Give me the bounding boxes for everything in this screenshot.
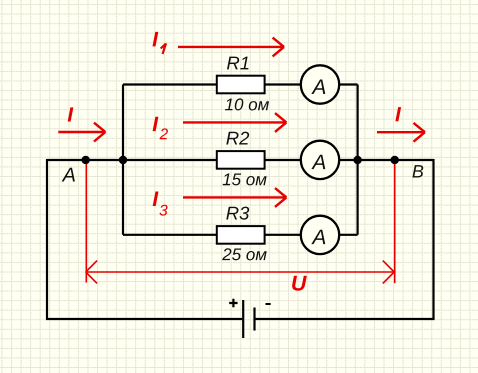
wire: bottom wire to battery plus: [46, 318, 242, 320]
wire: R1 to ammeter A1: [265, 83, 301, 85]
wire: right outer vertical: [432, 159, 434, 320]
current label I left: [68, 107, 74, 121]
current label I3: [153, 192, 159, 206]
junction dot right branch: [353, 156, 361, 164]
voltage extension line right: [394, 164, 396, 283]
label R3: [226, 207, 249, 220]
value label 25 om: [222, 248, 267, 260]
junction dot node B: [391, 156, 399, 164]
subscript 3: [159, 205, 167, 216]
current arrow I right: [377, 123, 425, 142]
label R1: [227, 57, 249, 70]
node label B: [412, 165, 423, 177]
wire: R2 to ammeter A2: [265, 159, 301, 161]
wire: ammeter A2 to node B: [339, 159, 433, 161]
wire: R3 to ammeter A3: [265, 234, 301, 236]
dimension arrowhead right: [383, 261, 394, 284]
wire: branch 1 to R1: [123, 83, 217, 85]
battery plus sign: [229, 299, 237, 307]
node label A: [62, 168, 75, 182]
junction dot left branch: [119, 156, 127, 164]
voltage extension line left: [85, 164, 87, 283]
voltage dimension line U: [86, 271, 395, 273]
label R2: [226, 132, 249, 145]
current label I2: [153, 117, 159, 131]
resistor R1: [217, 76, 265, 94]
current arrow I1: [178, 38, 284, 57]
junction dot node A: [82, 156, 90, 164]
voltage label U: [292, 276, 307, 291]
resistor R3: [217, 226, 265, 244]
wire: left branch vertical: [122, 85, 124, 235]
wire: node A bus: [47, 159, 217, 161]
wire: right branch vertical: [357, 85, 359, 235]
ammeter A1: [301, 65, 339, 103]
wire: battery minus to bottom right: [255, 318, 434, 320]
wire: left outer vertical: [46, 159, 48, 319]
subscript 1: [161, 43, 166, 54]
dimension arrowhead left: [86, 261, 97, 284]
value label 10 om: [225, 98, 269, 110]
battery minus sign: [266, 303, 271, 305]
value label 15 om: [223, 174, 267, 186]
current arrow I2: [183, 113, 286, 132]
battery negative plate: [253, 308, 255, 331]
current arrow I3: [183, 188, 286, 207]
ammeter A3: [301, 216, 339, 254]
current label I right: [395, 107, 401, 121]
wire: ammeter A3 to right vertical: [339, 234, 357, 236]
current arrow I left: [58, 123, 105, 142]
resistor R2: [217, 151, 265, 169]
wire: branch 3 to R3: [123, 234, 217, 236]
wire: ammeter A1 to right vertical: [339, 83, 357, 85]
current label I1: [152, 32, 158, 46]
subscript 2: [159, 128, 167, 139]
ammeter A2: [301, 141, 339, 179]
battery positive plate: [242, 300, 244, 338]
